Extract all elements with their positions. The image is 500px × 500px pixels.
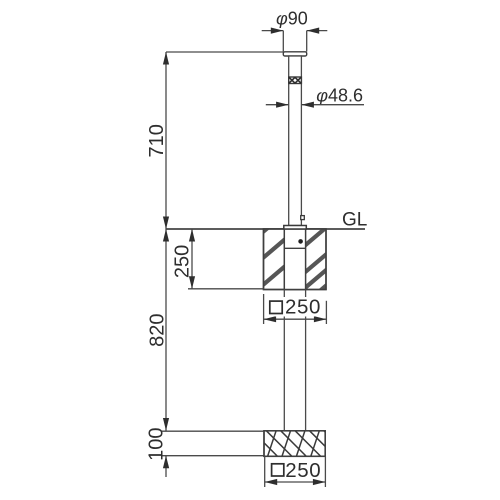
- foundation block with hatch: [262, 212, 328, 304]
- GL line: [166, 228, 365, 230]
- dimension square250 (foundation width): [264, 294, 327, 324]
- rubber base block with cross hatch: [223, 431, 349, 457]
- cap of post: [283, 52, 306, 56]
- reflective band with X pattern: [289, 77, 302, 84]
- svg-text:GL: GL: [342, 209, 367, 230]
- svg-text:φ48.6: φ48.6: [316, 85, 363, 105]
- dimension 250 (foundation depth): [188, 229, 264, 289]
- dimension phi90 label: [276, 9, 308, 29]
- dimension square250 (base width): [265, 456, 326, 487]
- dimension phi48.6 leader lines: [266, 104, 364, 106]
- svg-text:100: 100: [146, 428, 168, 461]
- lock knob on post: [301, 216, 305, 220]
- white backing for foundation width label: [267, 297, 323, 317]
- svg-text:820: 820: [146, 314, 168, 347]
- anchor sleeve below ground: [284, 229, 305, 290]
- svg-text:710: 710: [146, 124, 168, 157]
- dimension 710 vertical line: [166, 52, 283, 229]
- dimension phi90 lines and arrows: [262, 31, 328, 52]
- svg-text:φ90: φ90: [276, 9, 308, 29]
- dimension 820: [165, 229, 167, 431]
- svg-text:250: 250: [285, 296, 321, 319]
- dimension 710 arrowheads: [163, 52, 169, 229]
- base width label square: [272, 464, 284, 476]
- svg-text:250: 250: [285, 459, 321, 482]
- ground flange collar: [284, 226, 307, 230]
- foundation width label square: [270, 301, 282, 313]
- sleeve pipe below foundation: [284, 290, 305, 431]
- post (pipe phi48.6): [289, 56, 302, 226]
- dimension phi48.6 arrowheads: [276, 102, 314, 108]
- dimension 100: [162, 431, 264, 477]
- svg-text:250: 250: [171, 245, 193, 278]
- sleeve socket bottom line: [284, 247, 305, 249]
- bolt dot: [298, 239, 303, 244]
